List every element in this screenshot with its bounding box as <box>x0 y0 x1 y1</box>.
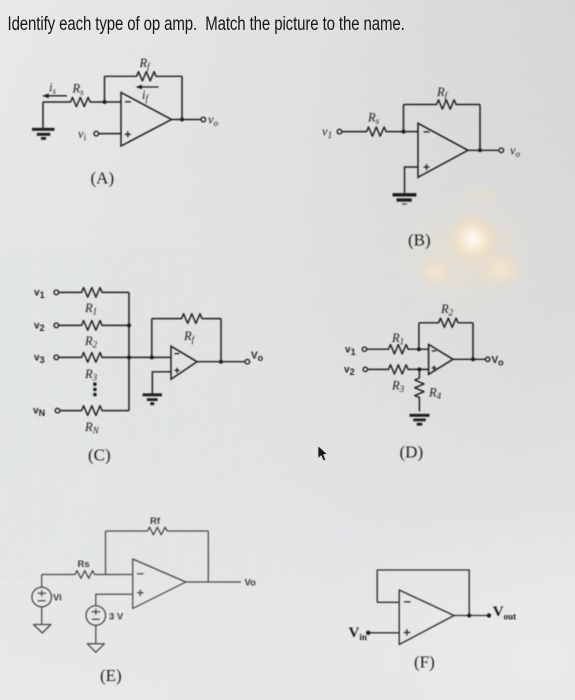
output terminal Vout <box>487 613 491 617</box>
wire R1 to inverting input <box>411 348 429 350</box>
wire R3 to plus input <box>411 368 429 370</box>
wire Rs to inverting input <box>97 574 133 576</box>
wire feedback down to output <box>181 76 183 119</box>
output wire <box>468 149 499 151</box>
wire Vin to plus input <box>370 632 399 634</box>
wire feedback down <box>479 105 481 151</box>
ground <box>410 415 430 424</box>
svg-text:Rs: Rs <box>78 559 90 570</box>
feedback top wire <box>105 75 183 77</box>
resistor Rf <box>145 527 169 535</box>
svg-text:Identify each type of op amp.: Identify each type of op amp. Match the … <box>8 12 405 34</box>
svg-text:Vo: Vo <box>251 351 264 364</box>
svg-text:(D): (D) <box>400 443 424 462</box>
wire vN to RN <box>60 410 79 412</box>
feedback wire top <box>377 570 469 616</box>
output terminal vo <box>245 359 250 364</box>
ground arrow 3V <box>87 644 104 653</box>
node bus v2 <box>127 323 131 327</box>
op-amp U-C <box>171 346 197 379</box>
wire feedback down <box>472 323 474 360</box>
current arrow if <box>136 85 159 90</box>
ellipsis dots <box>93 382 97 396</box>
wire v3 to R3 <box>59 356 79 358</box>
feedback top wire <box>404 104 481 106</box>
node output <box>180 118 184 122</box>
svg-text:v1: v1 <box>345 345 356 358</box>
feedback top wire <box>106 530 209 532</box>
svg-text:vN: vN <box>33 406 45 419</box>
ground arrow Vi <box>34 625 51 634</box>
output wire <box>197 361 245 363</box>
wire v1 to Rs <box>342 131 364 133</box>
wire plus input to ground <box>405 167 419 193</box>
bus wire <box>128 292 130 410</box>
resistor R1 <box>79 288 105 298</box>
resistor Rf <box>134 72 158 81</box>
output terminal Vo <box>486 357 490 361</box>
mouse cursor <box>318 446 327 461</box>
input terminal V2 <box>363 367 367 371</box>
input terminal v1 <box>337 129 342 134</box>
svg-text:v3: v3 <box>34 353 45 366</box>
svg-text:(C): (C) <box>88 446 111 465</box>
ground <box>32 102 55 138</box>
svg-text:(A): (A) <box>91 169 115 188</box>
source Vi <box>32 587 52 607</box>
wire V1 to R1 <box>367 348 386 350</box>
resistor R3 <box>79 353 105 363</box>
svg-text:(B): (B) <box>408 231 431 250</box>
input terminal v1 <box>54 290 59 295</box>
resistor Rs <box>68 97 93 106</box>
wire Rs to inverting node <box>93 101 122 103</box>
feedback top wire <box>152 318 221 320</box>
wire plus input <box>96 594 133 605</box>
op-amp U-F <box>399 590 454 645</box>
wire ground to Rs <box>43 101 68 103</box>
node output <box>467 614 471 618</box>
svg-text:v1: v1 <box>34 288 45 301</box>
input terminal Vin <box>366 631 370 635</box>
resistor R1 <box>386 345 410 354</box>
resistor RN <box>79 406 105 416</box>
wire R2 to bus <box>105 324 129 326</box>
node at inverting input <box>103 100 107 104</box>
node output <box>478 148 482 152</box>
output wire <box>172 119 202 121</box>
svg-text:v2: v2 <box>34 321 45 334</box>
svg-text:(F): (F) <box>414 653 435 672</box>
op-amp U-A <box>121 93 172 147</box>
flash glow cluster <box>393 193 543 317</box>
input terminal v3 <box>54 355 59 360</box>
resistor R2 <box>79 321 105 331</box>
node bus v3 <box>127 355 131 359</box>
node output <box>471 357 475 361</box>
svg-text:3 V: 3 V <box>109 612 124 623</box>
wire Rs to inverting input <box>389 131 419 133</box>
node inverting <box>417 347 421 351</box>
op-amp U-E <box>133 559 186 609</box>
resistor Rs <box>73 571 98 579</box>
op-amp U-D <box>429 344 453 374</box>
wire feedback left vertical <box>105 531 107 575</box>
wire feedback down <box>220 319 222 362</box>
output terminal vo <box>201 117 206 122</box>
svg-text:Vi: Vi <box>53 593 62 604</box>
wire Vi down <box>41 607 43 625</box>
input terminal vi <box>94 131 99 136</box>
resistor Rs <box>364 127 388 136</box>
wire feedback up <box>151 319 153 358</box>
svg-text:(E): (E) <box>100 666 122 685</box>
wire V2 to R3 <box>368 368 387 370</box>
wire feedback right vertical <box>207 531 209 582</box>
node inverting <box>402 130 406 134</box>
output wire <box>454 615 487 617</box>
svg-text:Vo: Vo <box>492 355 505 368</box>
input terminal V1 <box>362 347 366 351</box>
node plus input <box>417 367 421 371</box>
wire v1 to R1 <box>59 291 79 293</box>
wire R1 to bus <box>105 291 129 293</box>
output wire <box>186 581 241 583</box>
node feedback tap <box>150 355 154 359</box>
wire plus input to ground <box>152 372 171 394</box>
wire node up <box>403 105 405 132</box>
svg-text:Rf: Rf <box>150 516 161 527</box>
wire stub to inverting input <box>377 601 399 603</box>
input terminal v2 <box>54 323 59 328</box>
op-amp U-B <box>418 123 468 177</box>
output wire <box>453 358 486 360</box>
wire vi to plus input <box>99 133 121 135</box>
source 3V <box>86 606 106 626</box>
resistor R2 <box>436 318 460 327</box>
output terminal vo <box>499 148 504 153</box>
wire v2 to R2 <box>59 324 79 326</box>
wire node up <box>418 323 420 349</box>
resistor Rf <box>179 314 205 324</box>
wire RN to bus <box>105 410 129 412</box>
node output <box>219 360 223 364</box>
resistor R4 vertical <box>415 369 424 411</box>
ground <box>143 395 162 404</box>
wire 3V down <box>95 625 97 643</box>
ground <box>393 195 417 204</box>
svg-text:v2: v2 <box>344 365 355 378</box>
current arrow is <box>42 94 67 99</box>
wire Vi to Rs <box>42 574 73 576</box>
feedback top wire <box>419 322 473 324</box>
resistor R3 <box>386 365 410 374</box>
wire bus to op-amp <box>129 356 171 358</box>
resistor Rf <box>434 100 458 109</box>
wire R3 to bus <box>105 356 129 358</box>
wire Vi up <box>41 575 43 588</box>
svg-text:Vo: Vo <box>245 578 257 589</box>
input terminal vN <box>55 408 60 413</box>
wire node up <box>104 76 106 102</box>
